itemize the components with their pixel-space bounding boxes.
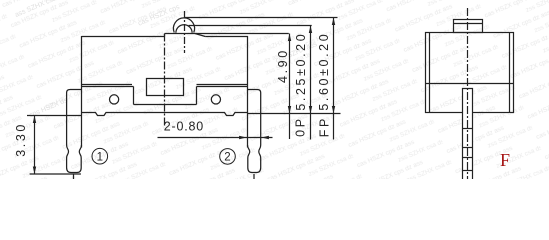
main centerline [164,34,166,127]
dimension line 5.25 OP [310,26,312,140]
plateau step [164,34,166,37]
side view centerline [467,8,469,180]
svg-text:FP: FP [317,116,331,137]
side view parting line [426,83,514,85]
seat baseline extension right [248,113,341,115]
svg-text:F: F [500,150,510,170]
hinge outer arc [173,18,194,33]
hinge inner arc [176,25,192,33]
lever top line / FP extension [184,17,338,19]
dimension line 4.90 [289,34,291,140]
terminal number 2 [220,149,236,165]
side view button mid line [454,23,483,25]
3.30 top extension line [27,115,81,117]
side view terminal leg [463,89,473,181]
body right edge [247,36,249,148]
body top edge right [205,36,248,38]
channel bottom [134,104,197,106]
svg-text:2-0.80: 2-0.80 [164,119,204,133]
dimension 3.30 [27,116,81,175]
side view leg crimp ticks [463,128,473,130]
3.30 arrows [33,116,36,124]
side view inner wall right [509,33,511,113]
svg-text:1: 1 [97,151,103,163]
terminal leg 2 outline [248,90,261,173]
body top edge left [82,36,165,38]
side view inner wall left [429,33,431,113]
internal parting line upper left [82,84,133,86]
svg-text:4.90: 4.90 [276,48,290,83]
leg 2 centerline tick [253,174,255,179]
plunger rectangle [147,79,184,96]
body bottom edge with staking notches [82,113,248,116]
mounting hole right [211,95,220,104]
side view button [454,20,483,33]
internal parting line lower right [197,86,248,88]
svg-text:3.30: 3.30 [14,122,28,157]
side view [426,8,514,180]
mounting hole left [110,95,119,104]
right-side dimensions [248,18,341,140]
arrows 4.90 [288,34,291,42]
3.30 dimension line [34,116,36,175]
arrows 5.60 [332,18,335,26]
3.30 bottom baseline [30,173,81,175]
svg-text:5.25±0.20: 5.25±0.20 [294,32,308,111]
svg-text:0P: 0P [293,116,307,137]
plateau top / 4.90 extension line [165,33,289,35]
internal parting line lower left [82,86,134,88]
hinge centerline [184,11,186,53]
plateau right chamfer [195,34,205,37]
arrows 5.25 [309,26,312,34]
watermark background [0,0,549,179]
darker watermark accents [0,0,435,162]
svg-text:5.60±0.20: 5.60±0.20 [317,32,331,111]
terminal leg 1 outline [67,90,82,173]
2-0.80 dimension line [158,137,273,139]
leg 1 centerline tick [73,174,75,179]
dimension 2-0.80 [158,137,273,139]
svg-text:2: 2 [224,152,230,164]
channel right wall [196,87,198,105]
2-0.80 arrows [239,136,246,139]
lever bottom line / OP extension [189,25,312,27]
channel left wall [133,87,135,105]
terminal number 1 [92,148,108,164]
dimension line 5.60 FP [333,18,335,140]
internal parting line upper right [197,84,248,86]
side view body outline [426,33,514,113]
body left edge [81,36,83,148]
